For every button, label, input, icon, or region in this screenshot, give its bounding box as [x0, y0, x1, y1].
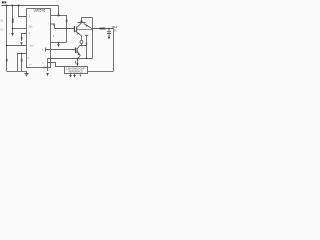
wire collector rail y=17 — [82, 17, 93, 19]
ground arrow out cap — [108, 37, 111, 40]
svg-text:C2: C2 — [0, 28, 4, 31]
labels — [0, 1, 118, 73]
svg-text:6: 6 — [29, 32, 31, 35]
svg-text:C1: C1 — [0, 19, 4, 22]
node dot x66 — [66, 28, 68, 30]
capacitor C1 body on x=6.5 — [6, 59, 8, 62]
node dot fb right — [86, 58, 87, 59]
wire internal y=62 elbow — [48, 63, 65, 67]
wire pin y=42.5 — [51, 42, 67, 44]
transistor Q1 source line — [77, 28, 92, 30]
svg-text:LM2576: LM2576 — [34, 9, 46, 13]
node dot x86 mid — [86, 43, 87, 44]
node dot input a — [6, 5, 8, 7]
wire pin2 feed y=28 — [13, 28, 27, 30]
svg-text:o/c: o/c — [29, 64, 33, 66]
IC U1 LM2576 box — [27, 9, 51, 68]
svg-text:3: 3 — [28, 57, 30, 60]
node dot input b — [12, 5, 14, 7]
ground arrow osc 2 — [73, 75, 76, 78]
wire left vertical branch x=6.5 — [6, 6, 8, 72]
transistor Q1 lower emitter stroke — [75, 31, 82, 40]
wire tick above oscillator — [75, 61, 77, 64]
wire base feed y=28.5 — [55, 28, 75, 30]
pin tick y49 — [44, 48, 47, 52]
label Vin — [2, 1, 4, 3]
plates mark on x=86.5 — [85, 34, 88, 36]
arrow x21.5 — [20, 42, 23, 45]
wire branch x=58.5 arrow — [58, 43, 60, 45]
wire gnd internal x=47.5 — [47, 59, 49, 71]
transistor Q1 top bar — [78, 22, 86, 24]
wire Q2 collector rail y=45 — [79, 45, 86, 47]
wire branch x=12.5 — [12, 6, 14, 34]
arrow q1 lower emitter — [77, 32, 80, 34]
wire stub below osc 1 — [69, 74, 72, 76]
inductor L1 body — [100, 28, 106, 30]
transistor Q1 base bar — [74, 26, 76, 32]
wire pin y=53 — [18, 54, 27, 72]
svg-text:1.23V BAND-GAP: 1.23V BAND-GAP — [66, 67, 85, 70]
node dot cap tap — [12, 28, 14, 30]
svg-text:GND: GND — [43, 66, 49, 69]
arrow q1 emitter — [86, 24, 89, 26]
wire into comparator x=77.5 — [77, 59, 79, 64]
wire feedback y=58 — [48, 58, 93, 60]
wire node feedback y=45.5 — [7, 45, 27, 47]
svg-text:5nd: 5nd — [30, 44, 35, 47]
node dot y15 — [58, 14, 60, 16]
node dot y42 — [58, 42, 60, 44]
capacitor C2 body on x=12.5 — [12, 19, 14, 23]
arrow q2 emitter — [78, 53, 81, 55]
wire output drop x=92.5 — [92, 18, 94, 59]
wire bottom-right rail — [88, 70, 114, 72]
transistor Q1 emitter diagonal to output — [84, 24, 92, 29]
transistor Q2 emitter stroke — [77, 52, 80, 58]
oscillator box — [65, 67, 88, 74]
node dot emitter join — [81, 45, 82, 46]
component blob on x=66.5 — [66, 20, 68, 23]
node dot out cap — [108, 28, 109, 29]
svg-text:7: 7 — [29, 16, 31, 19]
mark osc 3 — [80, 75, 82, 77]
node dot q1 col — [81, 20, 83, 22]
wire top rail drop x=58.5 — [58, 6, 60, 16]
node dot fb left — [6, 45, 8, 47]
node dot output — [92, 28, 94, 30]
junction dots — [6, 5, 110, 60]
svg-text:261: 261 — [29, 25, 34, 28]
wire right edge x=113.5 — [113, 29, 115, 72]
arrowheads — [11, 24, 110, 77]
ground arrow x12.5 — [11, 33, 14, 36]
ground arrow below ic — [46, 73, 49, 76]
arrow x58.5 — [57, 44, 60, 47]
wire bottom-left rail — [7, 70, 27, 72]
svg-text:4: 4 — [53, 34, 55, 38]
wire comparator feed y=49.5 — [46, 49, 76, 51]
wire branch x=18.5 to pin — [19, 6, 27, 17]
resistor R1 on x=21.5 — [21, 54, 23, 72]
wire top input rail — [2, 5, 59, 7]
svg-text:1: 1 — [53, 23, 55, 27]
svg-text:a: a — [42, 48, 44, 51]
wire stub below osc 2 — [73, 74, 76, 76]
capacitor C3 output — [108, 29, 110, 32]
wire pin y=24 elbow — [51, 24, 55, 29]
svg-text:5V: 5V — [114, 30, 117, 33]
arrow into oscillator — [76, 63, 79, 66]
transistor Q2 base bar — [75, 47, 77, 53]
transistor Q1 channel bar — [76, 27, 78, 32]
node dot fb mid — [77, 58, 78, 59]
wire x=86.5 drop — [86, 36, 88, 59]
transistor Q1 collector stroke — [77, 23, 81, 27]
ground left-bottom — [24, 71, 28, 76]
current source circle — [80, 40, 83, 43]
ground arrow osc 1 — [69, 75, 72, 78]
wire pin y=15 to right — [51, 15, 67, 28]
wire pin y=33.5 with diode D1 — [22, 34, 27, 42]
wire x=66.5 lower segment — [66, 29, 68, 43]
node dot r1 top — [21, 53, 22, 54]
transistor Q2 collector stroke — [77, 46, 79, 49]
transistor Q2 channel bar — [76, 48, 78, 53]
svg-text:RL2: RL2 — [112, 25, 118, 29]
node dot input c — [18, 5, 20, 7]
svg-text:REFERENCE: REFERENCE — [69, 72, 84, 74]
wire output rail y=28.5 — [93, 28, 114, 30]
wire collector up x=81.5 — [81, 18, 83, 23]
svg-text:1k: 1k — [42, 63, 45, 65]
